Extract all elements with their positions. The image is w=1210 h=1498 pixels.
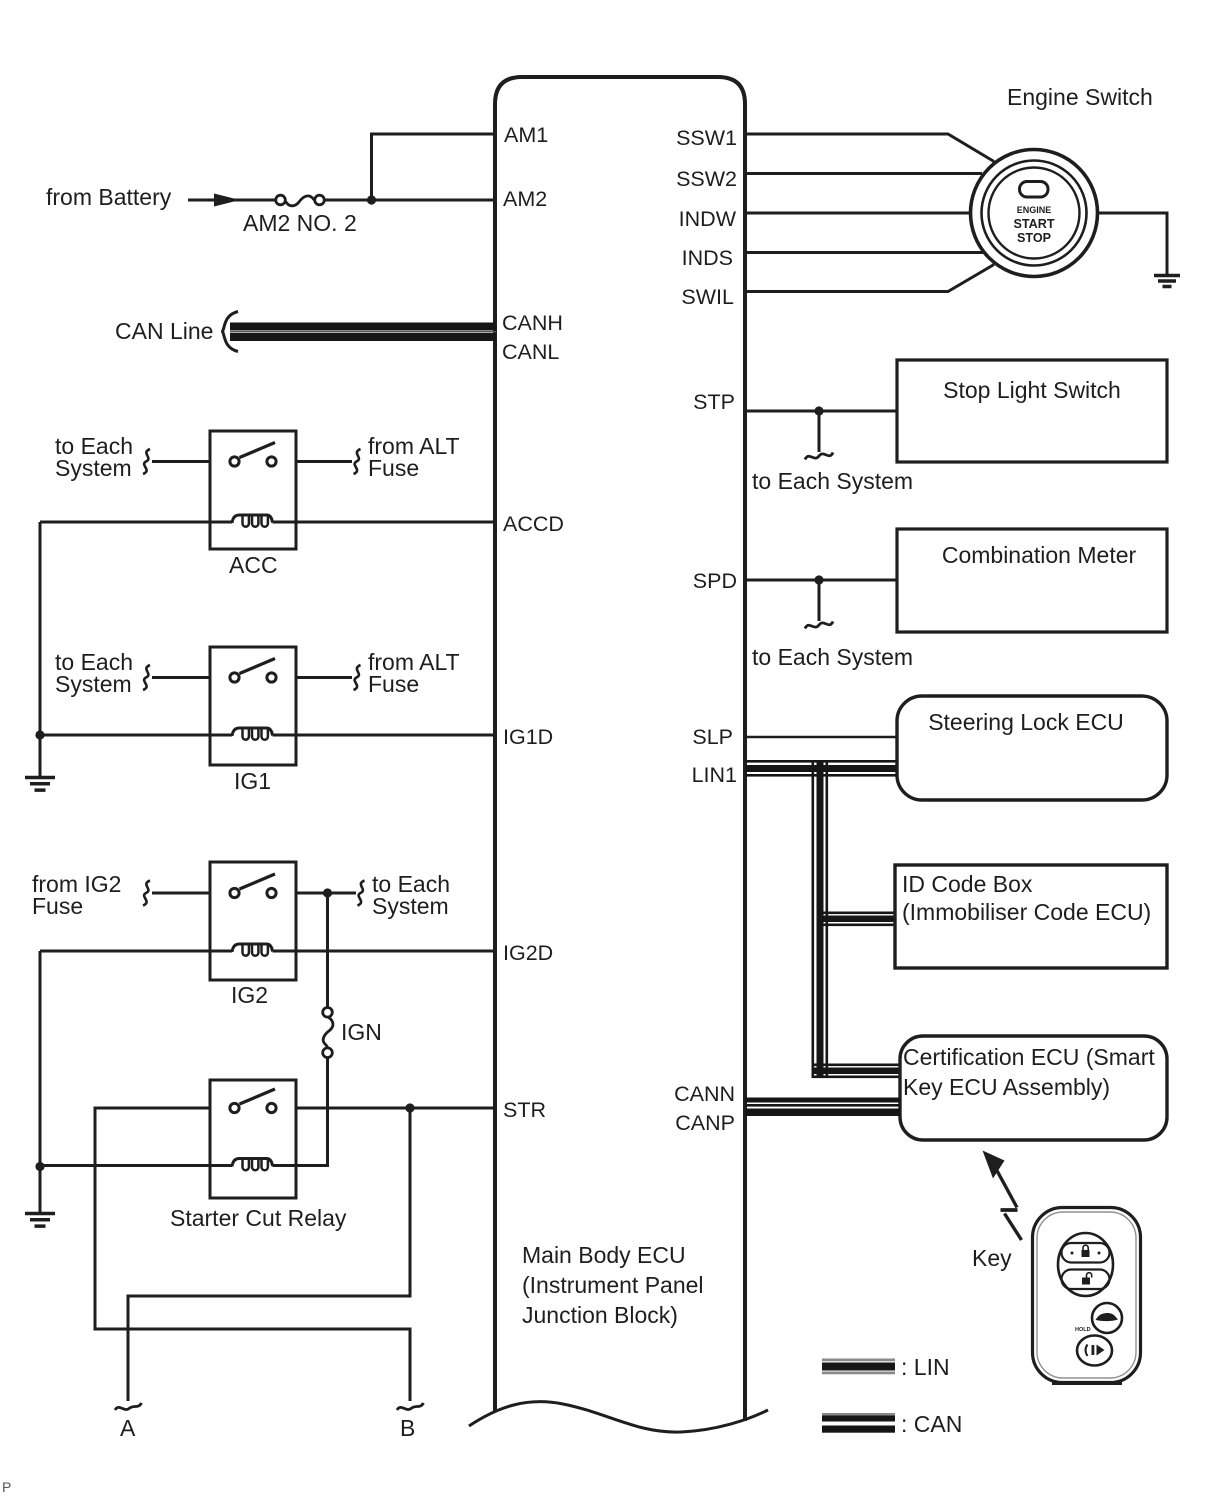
svg-text:from Battery: from Battery — [46, 184, 172, 210]
svg-text:P: P — [2, 1479, 11, 1495]
node junction on AM2 wire — [367, 195, 376, 204]
svg-text:SPD: SPD — [693, 569, 737, 593]
break mark right IG2 — [358, 881, 365, 906]
break mark left IG1 — [143, 665, 150, 690]
wire ground bus ACC/IG1 — [39, 522, 42, 776]
relay IG2 box — [210, 862, 296, 980]
svg-text:Fuse: Fuse — [368, 455, 419, 481]
svg-text:System: System — [55, 455, 132, 481]
CAN Line left brace mark — [223, 312, 239, 352]
node junction SPD — [814, 575, 823, 584]
node junction STR — [405, 1103, 414, 1112]
pin AM2 — [503, 187, 547, 211]
pin SSW1 — [676, 126, 737, 150]
wire SLP — [745, 736, 897, 739]
wire starter coil left segment — [40, 1164, 232, 1167]
pin IG2D — [503, 941, 553, 965]
engine switch button text — [1013, 205, 1054, 245]
legend CAN line sample — [822, 1413, 895, 1433]
wire junction up to AM1 — [372, 134, 496, 200]
pin STP — [693, 390, 735, 414]
label to Each System (SPD) — [752, 644, 913, 670]
break mark right ACC — [354, 449, 361, 474]
svg-text:Junction Block): Junction Block) — [522, 1302, 678, 1328]
svg-text:HOLD: HOLD — [1075, 1327, 1091, 1333]
key fob lock icon — [1071, 1245, 1101, 1257]
svg-text:STR: STR — [503, 1098, 546, 1122]
pin AM1 — [504, 123, 548, 147]
label terminal B — [400, 1415, 415, 1441]
node junction bus starter coil — [35, 1162, 44, 1171]
wire stub to Each System (ACC) — [152, 460, 210, 463]
label IG1 — [234, 768, 271, 794]
svg-text:Certification ECU (Smart: Certification ECU (Smart — [903, 1044, 1155, 1070]
pin CANN — [674, 1082, 735, 1106]
wire INDS to engine switch — [745, 251, 985, 254]
key fob panic car button — [1092, 1303, 1122, 1333]
label to Each System (IG2) — [372, 871, 450, 919]
wire stub from ALT Fuse (ACC) — [296, 460, 352, 463]
key fob lock/unlock button panel — [1058, 1233, 1113, 1296]
label terminal A — [120, 1415, 136, 1441]
label from ALT Fuse (ACC) — [368, 433, 460, 481]
wire stub from ALT Fuse (IG1) — [296, 676, 352, 679]
pin IG1D — [503, 725, 553, 749]
label ID Code Box — [902, 871, 1151, 925]
LIN bus vertical drop — [812, 760, 829, 1077]
relay ACC switch contacts — [230, 443, 276, 467]
svg-text:Key ECU Assembly): Key ECU Assembly) — [903, 1074, 1110, 1100]
svg-text:B: B — [400, 1415, 415, 1441]
wire ACCD right segment to pin — [273, 521, 496, 524]
svg-text:ACCD: ACCD — [503, 512, 564, 536]
label to Each System (STP) — [752, 468, 913, 494]
svg-text:INDS: INDS — [682, 246, 733, 270]
box Combination Meter — [897, 529, 1167, 632]
relay IG2 coil — [232, 944, 273, 956]
ground symbol left lower — [25, 1214, 55, 1227]
battery arrowhead — [214, 194, 240, 207]
key fob unlock icon — [1082, 1273, 1092, 1285]
pin STR — [503, 1098, 546, 1122]
pin CANL — [502, 340, 559, 364]
pin SSW2 — [676, 167, 737, 191]
wire stub to Each System (IG1) — [152, 676, 210, 679]
svg-text:A: A — [120, 1415, 136, 1441]
label to Each System (ACC) — [55, 433, 133, 481]
svg-text:: LIN: : LIN — [901, 1354, 950, 1380]
wire SPD — [745, 579, 897, 582]
label from IG2 Fuse — [32, 871, 121, 919]
label legend LIN — [901, 1354, 950, 1380]
LIN1 bus wire to Steering Lock ECU — [745, 760, 897, 777]
wire SSW1 to engine switch — [745, 134, 994, 162]
svg-text:CANP: CANP — [675, 1111, 735, 1135]
break mark STP stub — [805, 453, 833, 460]
label from Battery — [46, 184, 172, 210]
svg-text:Combination Meter: Combination Meter — [942, 542, 1137, 568]
svg-text:Key: Key — [972, 1245, 1012, 1271]
relay IG2 switch contacts — [230, 874, 276, 898]
break mark SPD stub — [805, 622, 833, 629]
svg-text:Steering Lock ECU: Steering Lock ECU — [928, 709, 1124, 735]
svg-text:ACC: ACC — [229, 552, 278, 578]
key fob HOLD text — [1075, 1327, 1091, 1333]
wire engine switch to ground — [1098, 213, 1168, 274]
arrow key to Certification ECU — [983, 1151, 1022, 1241]
CAN bus wire CANN/CANP — [745, 1098, 900, 1117]
svg-text:to Each System: to Each System — [752, 644, 913, 670]
label from ALT Fuse (IG1) — [368, 649, 460, 697]
svg-text:IG2: IG2 — [231, 982, 268, 1008]
svg-text:STOP: STOP — [1017, 231, 1051, 245]
wire IG2D right segment to pin — [273, 950, 496, 953]
relay Starter Cut coil — [232, 1159, 273, 1171]
pin INDS — [682, 246, 733, 270]
svg-text:System: System — [372, 893, 449, 919]
label Starter Cut Relay — [170, 1205, 347, 1231]
label CAN Line — [115, 318, 213, 344]
engine switch SW1 body — [971, 150, 1098, 277]
node junction bus IG1D — [35, 730, 44, 739]
svg-text:: CAN: : CAN — [901, 1411, 962, 1437]
wire stub from IG2 Fuse — [152, 892, 210, 895]
wire stub to Each System (IG2) — [296, 892, 356, 895]
pin INDW — [679, 207, 737, 231]
break mark left IG2 — [143, 881, 150, 906]
wire IG2 junction down to IGN fuse — [326, 893, 329, 1008]
wire STP — [745, 410, 897, 413]
wire STP stub to Each System — [818, 411, 821, 452]
wire IG2D left segment — [40, 950, 232, 953]
break mark right IG1 — [354, 665, 361, 690]
box Stop Light Switch — [897, 360, 1167, 462]
label Engine Switch — [1007, 84, 1153, 110]
label legend CAN — [901, 1411, 962, 1437]
svg-text:LIN1: LIN1 — [692, 763, 737, 787]
wire INDW to engine switch — [745, 212, 971, 215]
node junction STP — [814, 406, 823, 415]
svg-text:to Each System: to Each System — [752, 468, 913, 494]
relay ACC coil — [232, 515, 273, 527]
relay Starter Cut switch contacts — [230, 1089, 276, 1113]
svg-text:SSW2: SSW2 — [676, 167, 737, 191]
ground symbol left upper — [25, 778, 55, 791]
Main Body ECU box U1 outline — [495, 77, 745, 1421]
pin CANH — [502, 311, 563, 335]
wire IG1D left segment — [40, 734, 232, 737]
svg-text:AM2 NO. 2: AM2 NO. 2 — [243, 210, 357, 236]
label Steering Lock ECU — [928, 709, 1124, 735]
pin SPD — [693, 569, 737, 593]
label Main Body ECU — [522, 1242, 704, 1328]
break mark left ACC — [143, 449, 150, 474]
wire IG1D right segment to pin — [273, 734, 496, 737]
svg-text:AM2: AM2 — [503, 187, 547, 211]
wire STR to pin — [296, 1107, 495, 1110]
wire STR junction to A leg — [128, 1108, 410, 1401]
svg-text:IGN: IGN — [341, 1019, 382, 1045]
svg-text:STP: STP — [693, 390, 735, 414]
wire IGN fuse to starter coil — [273, 1058, 328, 1166]
pin LIN1 — [692, 763, 737, 787]
wire ACCD left segment — [40, 521, 232, 524]
relay IG1 coil — [232, 728, 273, 740]
svg-text:AM1: AM1 — [504, 123, 548, 147]
wire ground bus IG2/Starter — [39, 951, 42, 1212]
svg-text:START: START — [1013, 217, 1054, 231]
Main Body ECU wavy bottom edge — [469, 1402, 768, 1432]
label Key — [972, 1245, 1012, 1271]
fuse IGN — [323, 1008, 333, 1058]
label Stop Light Switch — [943, 377, 1121, 403]
svg-text:IG1: IG1 — [234, 768, 271, 794]
svg-text:ID Code Box: ID Code Box — [902, 871, 1033, 897]
LIN branch to ID Code Box — [817, 912, 896, 927]
label IG2 — [231, 982, 268, 1008]
LIN branch to Certification ECU — [812, 1064, 901, 1079]
svg-text:SSW1: SSW1 — [676, 126, 737, 150]
svg-text:SWIL: SWIL — [681, 285, 734, 309]
pin ACCD — [503, 512, 564, 536]
svg-text:Main Body ECU: Main Body ECU — [522, 1242, 686, 1268]
engine switch indicator lamp — [1020, 182, 1049, 198]
label to Each System (IG1) — [55, 649, 133, 697]
wire SSW2 to engine switch — [745, 172, 982, 175]
relay ACC box — [210, 431, 296, 549]
label ACC — [229, 552, 278, 578]
svg-text:Stop Light Switch: Stop Light Switch — [943, 377, 1121, 403]
break mark terminal B — [397, 1403, 424, 1410]
wire starter switch left to B leg — [95, 1108, 410, 1401]
pin CANP — [675, 1111, 735, 1135]
svg-text:CANL: CANL — [502, 340, 559, 364]
svg-text:ENGINE: ENGINE — [1017, 205, 1052, 215]
svg-text:(Instrument Panel: (Instrument Panel — [522, 1272, 704, 1298]
ground symbol engine switch — [1154, 276, 1180, 287]
pin SWIL — [681, 285, 734, 309]
svg-text:(Immobiliser Code ECU): (Immobiliser Code ECU) — [902, 899, 1151, 925]
wire from Battery arrow feed — [188, 199, 276, 202]
label Combination Meter — [942, 542, 1137, 568]
fuse AM2 NO. 2 — [276, 195, 325, 206]
relay IG1 switch contacts — [230, 659, 276, 683]
svg-text:System: System — [55, 671, 132, 697]
svg-text:IG1D: IG1D — [503, 725, 553, 749]
label IGN — [341, 1019, 382, 1045]
svg-text:CAN Line: CAN Line — [115, 318, 213, 344]
relay IG1 box — [210, 647, 296, 765]
svg-text:Starter Cut Relay: Starter Cut Relay — [170, 1205, 347, 1231]
label Certification ECU — [903, 1044, 1155, 1100]
svg-text:IG2D: IG2D — [503, 941, 553, 965]
wire SPD stub to Each System — [818, 580, 821, 621]
svg-text:Fuse: Fuse — [368, 671, 419, 697]
relay Starter Cut Relay box — [210, 1080, 296, 1198]
box ID Code Box — [895, 865, 1167, 968]
key fob trunk button — [1077, 1336, 1112, 1366]
box Steering Lock ECU — [897, 696, 1167, 800]
label AM2 NO. 2 — [243, 210, 357, 236]
legend LIN line sample — [822, 1359, 895, 1375]
node junction IG2 to IGN — [323, 888, 332, 897]
key fob body — [1033, 1208, 1141, 1384]
box Certification ECU — [900, 1036, 1167, 1140]
CAN Line double wire (CANH/CANL) — [230, 323, 496, 342]
wire SWIL to engine switch — [745, 265, 994, 292]
svg-text:CANN: CANN — [674, 1082, 735, 1106]
svg-text:INDW: INDW — [679, 207, 737, 231]
break mark terminal A — [115, 1403, 142, 1410]
svg-text:SLP: SLP — [692, 725, 733, 749]
page letter P — [2, 1479, 11, 1495]
svg-text:Engine Switch: Engine Switch — [1007, 84, 1153, 110]
svg-text:Fuse: Fuse — [32, 893, 83, 919]
pin SLP — [692, 725, 733, 749]
wire fuse to AM2 pin — [324, 199, 495, 202]
svg-text:CANH: CANH — [502, 311, 563, 335]
